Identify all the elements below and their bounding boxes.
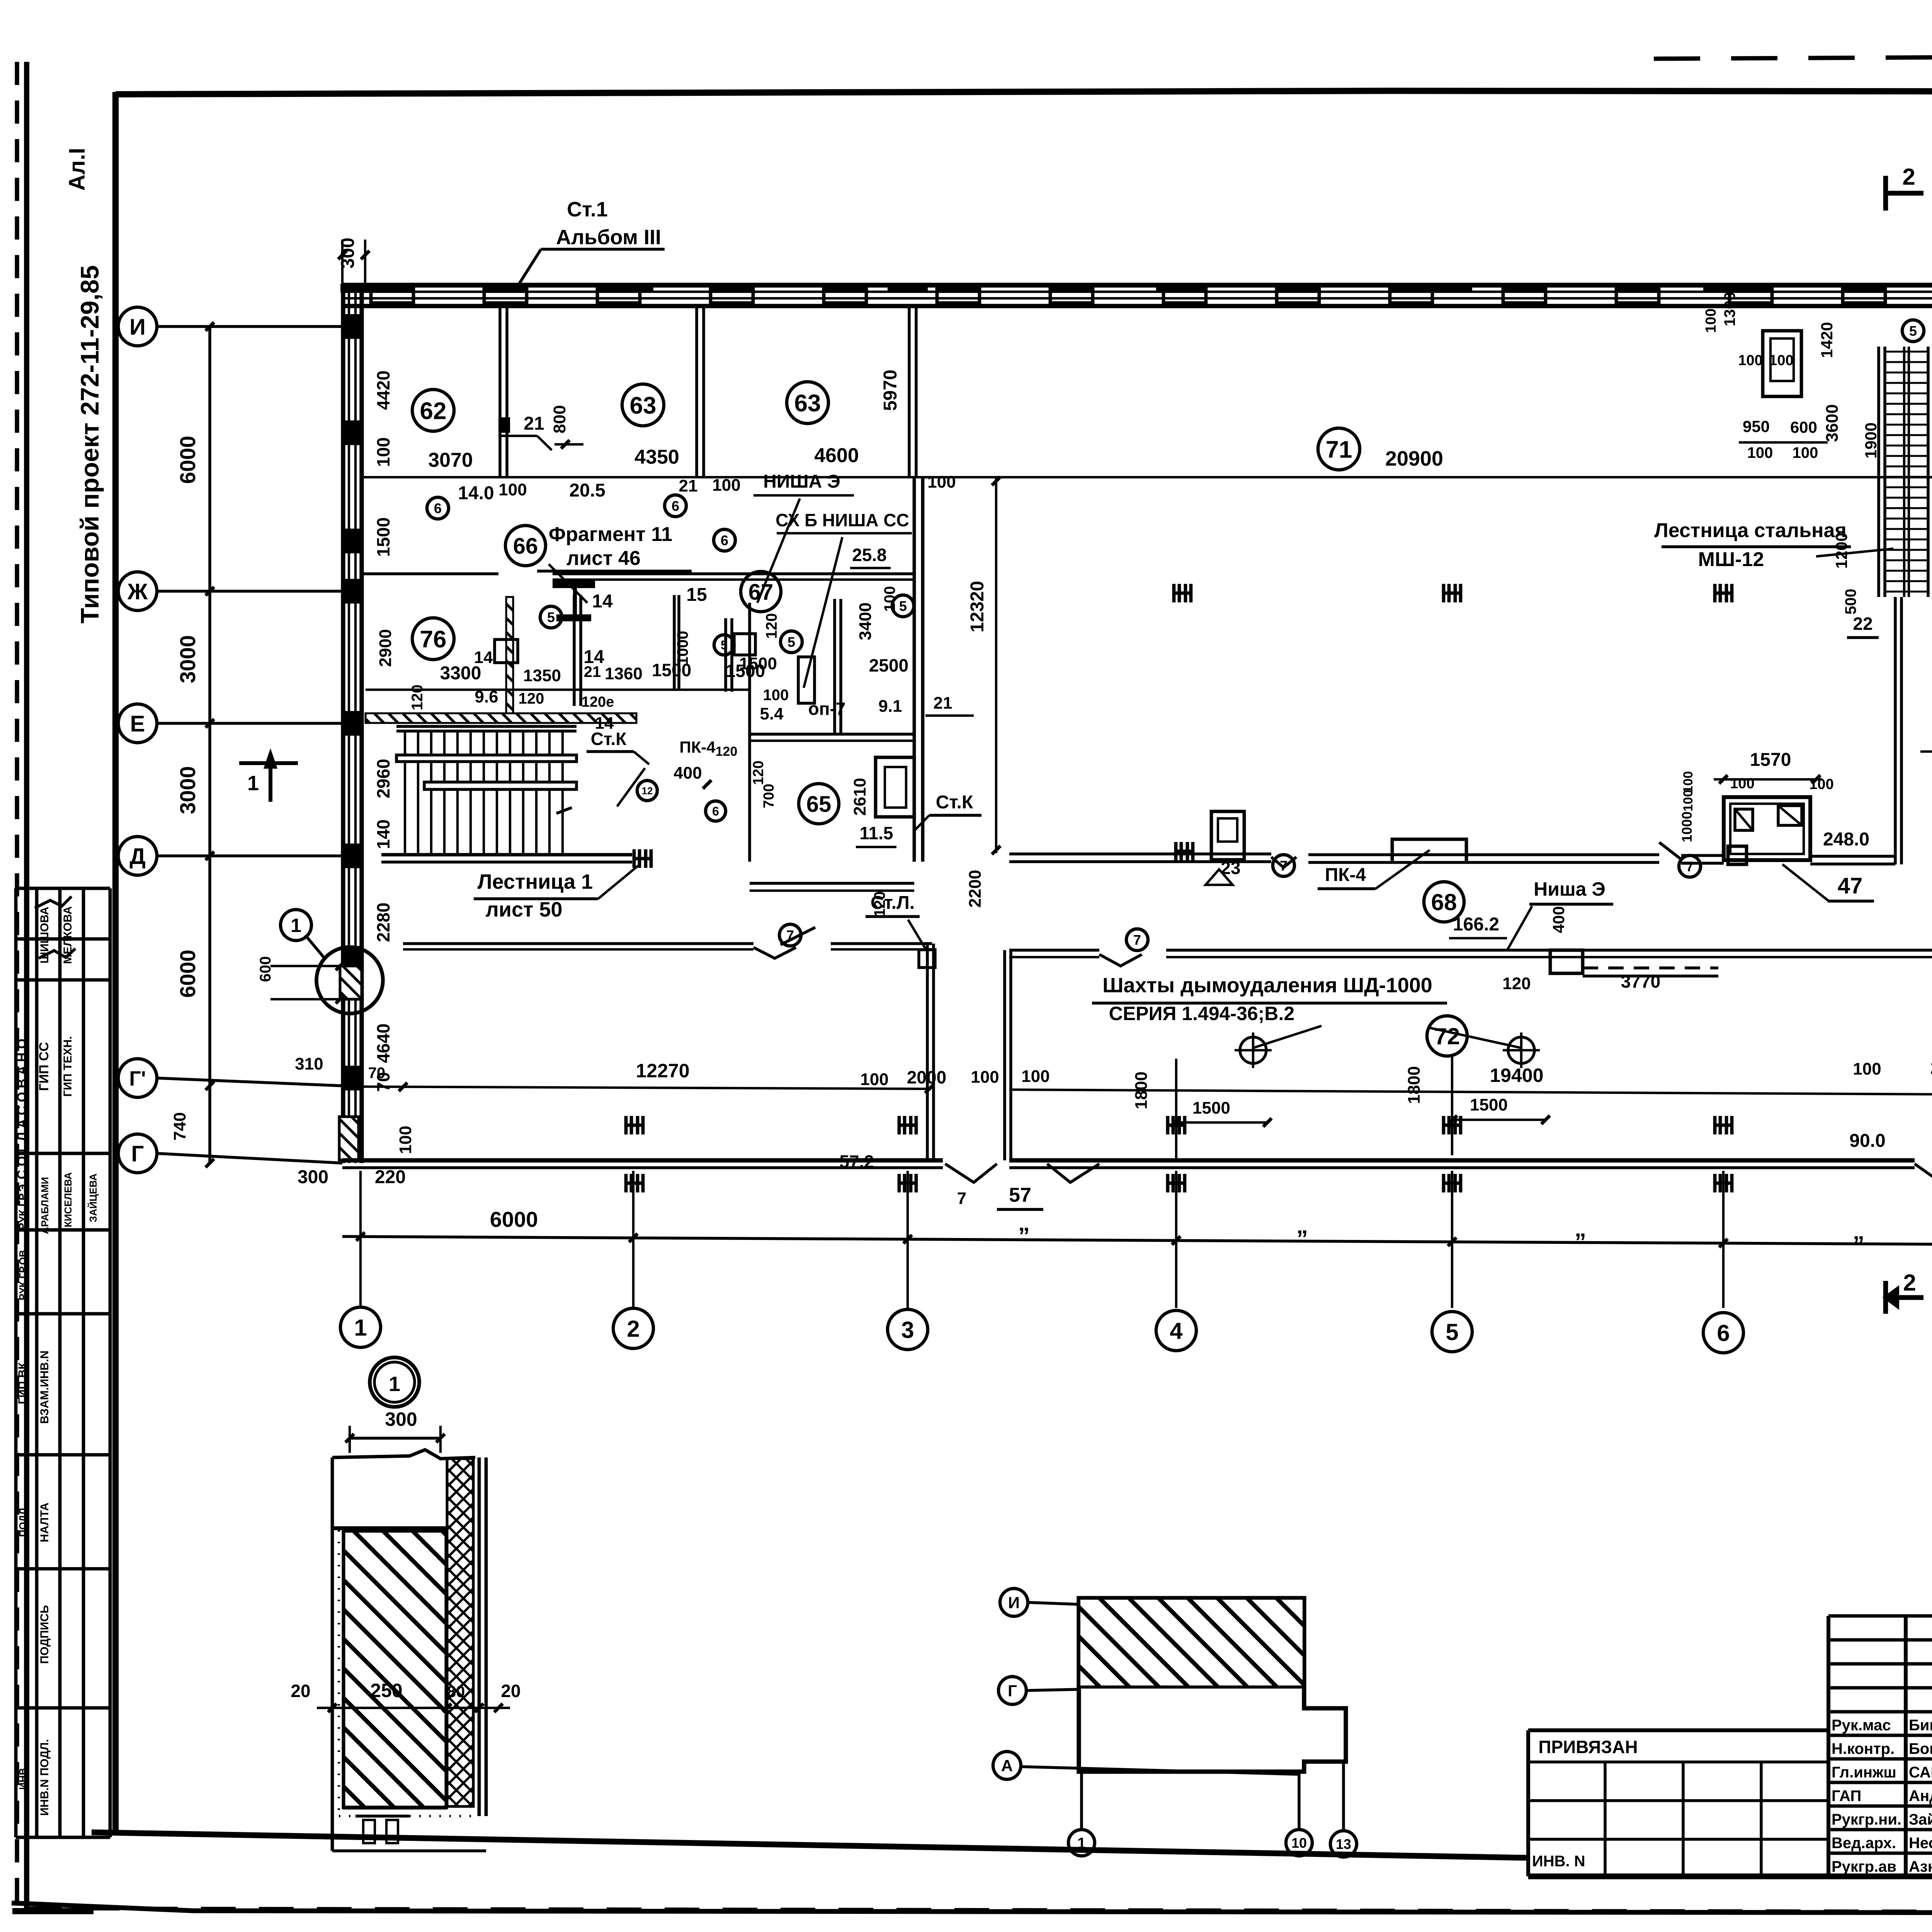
svg-text:6000: 6000 bbox=[175, 436, 200, 484]
key plan axis bubble И bbox=[1000, 1588, 1028, 1616]
wall right of second room 63 on axis 3 bbox=[908, 306, 911, 477]
svg-text:6: 6 bbox=[672, 498, 679, 514]
svg-text:57.2: 57.2 bbox=[839, 1151, 874, 1172]
svg-text:2200: 2200 bbox=[966, 870, 985, 908]
svg-text:А: А bbox=[1001, 1757, 1013, 1775]
svg-text:Г: Г bbox=[1008, 1682, 1017, 1700]
sheet inner frame top border bbox=[116, 91, 1932, 94]
left outer wall band with windows bbox=[341, 285, 345, 1163]
svg-text:68: 68 bbox=[1431, 889, 1457, 915]
svg-text:250: 250 bbox=[370, 1680, 402, 1701]
detail fragment double circle 1 bbox=[370, 1357, 419, 1407]
svg-text:120: 120 bbox=[409, 685, 426, 711]
svg-text:1500: 1500 bbox=[739, 654, 777, 673]
dim line G-prime across room 70 bbox=[344, 1087, 931, 1089]
svg-text:62: 62 bbox=[420, 398, 447, 424]
fragment partition wall middle bbox=[573, 595, 576, 706]
svg-text:14: 14 bbox=[592, 591, 613, 612]
svg-text:90.0: 90.0 bbox=[1849, 1131, 1885, 1151]
svg-text:5: 5 bbox=[899, 598, 907, 614]
svg-text:1500: 1500 bbox=[373, 517, 393, 557]
svg-text:5: 5 bbox=[547, 609, 555, 625]
top wall pier blocks at axes bbox=[340, 284, 381, 293]
svg-text:1360: 1360 bbox=[605, 664, 643, 683]
svg-text:4350: 4350 bbox=[634, 446, 679, 468]
svg-text:ИНВ.N ПОДЛ.: ИНВ.N ПОДЛ. bbox=[38, 1739, 51, 1816]
detail outer right lines bbox=[478, 1458, 481, 1816]
room bubble 71 bbox=[1318, 428, 1360, 470]
svg-text:100: 100 bbox=[1021, 1067, 1049, 1086]
svg-text:Богданова: Богданова bbox=[1909, 1740, 1932, 1757]
steel stair central divider bbox=[1903, 347, 1905, 597]
svg-text:лист 46: лист 46 bbox=[566, 547, 641, 570]
svg-text:4420: 4420 bbox=[373, 371, 393, 410]
fragment tee bar upper bbox=[553, 580, 595, 588]
bubble 5 at steel stair top bbox=[1902, 320, 1924, 342]
svg-text:ПРИВЯЗАН: ПРИВЯЗАН bbox=[1538, 1737, 1638, 1757]
svg-text:6: 6 bbox=[721, 532, 728, 548]
corridor wall Д main segment bbox=[1009, 852, 1271, 855]
svg-text:ИНВ.: ИНВ. bbox=[17, 1765, 29, 1789]
svg-text:1300: 1300 bbox=[1721, 292, 1738, 327]
svg-text:4640: 4640 bbox=[373, 1024, 393, 1063]
detail top of brick line bbox=[332, 1526, 447, 1530]
svg-text:4600: 4600 bbox=[814, 444, 859, 467]
bubble 7 door room 70 bbox=[779, 924, 801, 946]
svg-text:НИША Э: НИША Э bbox=[763, 471, 840, 492]
svg-text:ПК-4: ПК-4 bbox=[1325, 865, 1366, 885]
wall segment below 64 with niche bbox=[876, 757, 914, 817]
svg-text:7: 7 bbox=[1280, 858, 1287, 874]
left wall hatched pilaster at detail bbox=[340, 966, 362, 999]
corridor wall above stairs hatched bbox=[366, 713, 636, 723]
svg-text:100: 100 bbox=[927, 473, 956, 492]
svg-text:20.5: 20.5 bbox=[569, 480, 605, 501]
sheet outer edge left solid bbox=[24, 62, 29, 1912]
svg-text:120: 120 bbox=[763, 613, 780, 639]
svg-text:100: 100 bbox=[1747, 444, 1773, 461]
section mark 1 north arrow bbox=[269, 755, 272, 802]
svg-text:9.6: 9.6 bbox=[474, 687, 498, 706]
svg-text:С О Г Л А С О В А Н О: С О Г Л А С О В А Н О bbox=[15, 1039, 29, 1179]
niche and dashed duct wall right of room 68 bbox=[1550, 950, 1583, 973]
top dashed line right segment bbox=[1654, 54, 1932, 59]
corridor vertical wall right bbox=[1003, 950, 1006, 1160]
svg-text:И: И bbox=[1008, 1594, 1020, 1612]
svg-text:140: 140 bbox=[373, 820, 393, 849]
small radiator boxes room 64 bbox=[798, 657, 815, 703]
room 47 shaft box bbox=[1724, 797, 1810, 860]
detail top break line bbox=[332, 1450, 475, 1459]
svg-text:12: 12 bbox=[642, 785, 653, 796]
section mark 2 bottom bbox=[1883, 1281, 1888, 1314]
sheet outer torn edge left dashed bbox=[15, 62, 19, 1909]
svg-text:100: 100 bbox=[396, 1126, 415, 1154]
svg-text:5: 5 bbox=[1446, 1319, 1458, 1345]
svg-text:ГИП ВК: ГИП ВК bbox=[16, 1362, 29, 1404]
svg-text:100: 100 bbox=[881, 586, 898, 612]
svg-text:100: 100 bbox=[1738, 352, 1762, 369]
svg-text:3000: 3000 bbox=[175, 635, 200, 684]
svg-text:И: И bbox=[129, 315, 146, 340]
door opening symbol to room 68 left bbox=[781, 927, 815, 945]
svg-text:7: 7 bbox=[957, 1189, 966, 1208]
bubble 7 door room 72 left bbox=[1126, 929, 1148, 951]
svg-text:АРАБЛАМИ: АРАБЛАМИ bbox=[39, 1177, 51, 1234]
bottom dimension chain line bbox=[342, 1236, 1932, 1247]
svg-text:14: 14 bbox=[595, 714, 614, 733]
wall on axis Д at stair bottom bbox=[381, 853, 632, 857]
room 64 65 walls bbox=[833, 599, 836, 734]
svg-text:РУК.ГР.ОВ: РУК.ГР.ОВ bbox=[17, 1250, 29, 1301]
svg-text:1000: 1000 bbox=[674, 631, 691, 665]
wall below steel stair bbox=[1894, 597, 1897, 864]
svg-text:248.0: 248.0 bbox=[1823, 829, 1869, 850]
svg-text:300: 300 bbox=[385, 1408, 417, 1430]
svg-text:Азюбенко: Азюбенко bbox=[1909, 1858, 1932, 1875]
title block signature table grid bbox=[1827, 1616, 1830, 1876]
svg-text:100: 100 bbox=[373, 437, 393, 467]
door break corridor 1 bbox=[1271, 857, 1296, 867]
svg-text:100: 100 bbox=[1730, 776, 1754, 792]
svg-text:ГИП СС: ГИП СС bbox=[37, 1042, 51, 1091]
fragment bubble 66 and label bbox=[505, 526, 546, 566]
svg-text:1570: 1570 bbox=[1750, 750, 1791, 770]
svg-text:МШ-12: МШ-12 bbox=[1698, 548, 1764, 571]
svg-text:РУК.ГР.Э.: РУК.ГР.Э. bbox=[17, 1181, 29, 1230]
sheet inner frame bottom border bbox=[92, 1832, 1528, 1858]
svg-text:Типовой проект 272-11-29,85: Типовой проект 272-11-29,85 bbox=[75, 265, 104, 623]
svg-text:Лестница стальная: Лестница стальная bbox=[1654, 519, 1846, 542]
svg-text:КИСЕЛЕВА: КИСЕЛЕВА bbox=[62, 1172, 74, 1228]
rotated dim 12320 with line bbox=[995, 477, 997, 853]
room bubble 76 bbox=[412, 618, 454, 660]
leader from seriya to right shaft bbox=[1430, 1028, 1521, 1048]
title block bottom dashed line bbox=[27, 1908, 1932, 1913]
svg-text:Д: Д bbox=[129, 844, 145, 869]
svg-text:Ст.1: Ст.1 bbox=[567, 198, 608, 221]
wall between rooms 62 and 63 bbox=[498, 306, 502, 477]
svg-text:100: 100 bbox=[712, 476, 740, 495]
svg-text:11.5: 11.5 bbox=[860, 823, 893, 843]
svg-text:Ж: Ж bbox=[127, 579, 148, 604]
svg-text:6: 6 bbox=[434, 500, 442, 516]
svg-text:лист 50: лист 50 bbox=[485, 898, 562, 921]
svg-text:10: 10 bbox=[1291, 1835, 1307, 1851]
room 66 67 partition hatched wall bbox=[506, 597, 513, 713]
svg-text:9.1: 9.1 bbox=[878, 697, 902, 716]
columns at bottom wall pairs bbox=[624, 1116, 628, 1134]
svg-text:3400: 3400 bbox=[856, 602, 875, 640]
axis Г' bubble bbox=[118, 1059, 157, 1097]
svg-text:1: 1 bbox=[389, 1372, 400, 1396]
interior dimension line across plan bbox=[363, 476, 1932, 478]
axis И bubble bbox=[118, 307, 157, 346]
hall 71 columns on axis Ж bbox=[1172, 584, 1176, 602]
key plan axis line 13 bbox=[1342, 1762, 1345, 1830]
wall below rooms 62 63 63 bbox=[361, 572, 498, 575]
svg-text:СХ Б НИША СС: СХ Б НИША СС bbox=[776, 510, 909, 530]
fragment bubble 1 left wall bbox=[281, 910, 311, 940]
svg-text:3000: 3000 bbox=[175, 766, 200, 815]
svg-text:100: 100 bbox=[860, 1070, 888, 1089]
svg-text:Рукгр.ав: Рукгр.ав bbox=[1832, 1858, 1896, 1875]
room bubble 65 bbox=[799, 784, 839, 824]
niche PK-4 box on corridor wall bbox=[1392, 839, 1466, 861]
section mark 2 top bbox=[1883, 176, 1888, 211]
axis Г bubble bbox=[118, 1134, 157, 1173]
hall 71 left wall on axis 3 lower part bbox=[913, 477, 916, 862]
detail reference circle around pilaster bbox=[316, 947, 383, 1014]
detail bottom structure bbox=[344, 1806, 446, 1810]
svg-text:20900: 20900 bbox=[1385, 447, 1443, 470]
svg-text:47: 47 bbox=[1838, 873, 1863, 898]
key plan axis bubble Г bbox=[998, 1677, 1026, 1704]
fragment wall stub right of tee bbox=[724, 618, 727, 692]
svg-text:5: 5 bbox=[1909, 323, 1917, 339]
svg-text:15: 15 bbox=[686, 585, 707, 605]
door break room 72 left bbox=[1099, 954, 1142, 966]
room bubble 68 bbox=[1424, 882, 1464, 922]
svg-text:166.2: 166.2 bbox=[1453, 914, 1499, 935]
svg-text:1800: 1800 bbox=[1405, 1066, 1423, 1104]
key plan axis line 1 bbox=[1080, 1772, 1083, 1829]
svg-text:120: 120 bbox=[1502, 974, 1531, 993]
wall between rooms 63 and 63 bbox=[695, 306, 698, 477]
svg-text:2: 2 bbox=[1902, 164, 1915, 190]
svg-text:1900: 1900 bbox=[1862, 422, 1880, 458]
svg-text:ИНВ. N: ИНВ. N bbox=[1532, 1853, 1585, 1870]
svg-text:800: 800 bbox=[550, 405, 569, 433]
small bubbles 5 6 around left block bbox=[427, 497, 449, 519]
svg-text:5: 5 bbox=[787, 634, 795, 650]
steel stair MSh-12 rails bbox=[1877, 347, 1880, 597]
room bubble 72 left bbox=[1427, 1016, 1467, 1056]
left wall pier blocks bbox=[342, 314, 363, 339]
column on corridor wall axis 4 bbox=[1174, 842, 1178, 861]
room 70 top wall bbox=[403, 942, 753, 945]
svg-text:САМОВЕР: САМОВЕР bbox=[1909, 1764, 1932, 1781]
svg-text:Н.контр.: Н.контр. bbox=[1832, 1740, 1895, 1757]
svg-text:ГАП: ГАП bbox=[1832, 1787, 1861, 1804]
svg-text:100: 100 bbox=[1681, 790, 1696, 812]
svg-text:63: 63 bbox=[794, 390, 821, 417]
svg-text:„: „ bbox=[1575, 1216, 1586, 1242]
svg-text:72: 72 bbox=[1434, 1024, 1460, 1049]
svg-text:ВЗАМ.ИНВ.N: ВЗАМ.ИНВ.N bbox=[38, 1350, 51, 1424]
left table signature squiggles bbox=[35, 896, 71, 908]
svg-text:Гл.инжш: Гл.инжш bbox=[1832, 1764, 1896, 1781]
svg-text:Е: Е bbox=[130, 711, 145, 736]
svg-text:Ст.К: Ст.К bbox=[936, 792, 973, 813]
room bubble 63 second bbox=[787, 382, 828, 423]
stair 1 top edge double line bbox=[396, 725, 577, 728]
svg-text:5.4: 5.4 bbox=[760, 704, 784, 723]
sheet bottom outer edge line bbox=[12, 1903, 1932, 1913]
svg-text:Г': Г' bbox=[129, 1067, 146, 1090]
svg-text:„: „ bbox=[1018, 1210, 1030, 1236]
svg-text:ПК-4: ПК-4 bbox=[679, 738, 716, 756]
svg-text:100: 100 bbox=[1793, 444, 1818, 461]
door 57 right leaves bbox=[1915, 1164, 1932, 1182]
svg-text:300: 300 bbox=[338, 238, 358, 269]
svg-text:1: 1 bbox=[1077, 1835, 1086, 1852]
svg-text:3600: 3600 bbox=[1823, 404, 1842, 442]
svg-text:ЗАЙЦЕВА: ЗАЙЦЕВА bbox=[87, 1173, 99, 1223]
svg-text:ПОДЛ: ПОДЛ bbox=[17, 1508, 29, 1537]
svg-text:1800: 1800 bbox=[1132, 1071, 1151, 1109]
svg-text:120: 120 bbox=[716, 744, 738, 759]
svg-text:14: 14 bbox=[474, 648, 493, 667]
small radiator box room 76 fragment bbox=[495, 639, 518, 663]
svg-text:СЕРИЯ 1.494-36;В.2: СЕРИЯ 1.494-36;В.2 bbox=[1109, 1003, 1294, 1024]
svg-text:66: 66 bbox=[513, 534, 538, 559]
svg-text:Лестница 1: Лестница 1 bbox=[478, 870, 593, 893]
fragment tee bar lower bbox=[556, 614, 591, 621]
svg-text:НАЛТА: НАЛТА bbox=[38, 1503, 51, 1543]
fragment partition wall right bbox=[673, 595, 676, 690]
svg-text:Рук.мас: Рук.мас bbox=[1832, 1717, 1891, 1734]
corridor vertical wall left of room 72 bbox=[926, 944, 929, 1160]
svg-text:6000: 6000 bbox=[490, 1207, 538, 1231]
room bubble 62 bbox=[412, 389, 454, 431]
leader line nisha E bbox=[757, 498, 800, 603]
svg-text:740: 740 bbox=[170, 1112, 189, 1140]
interior dim line room 72 bbox=[1012, 1090, 1932, 1097]
svg-text:Вед.арх.: Вед.арх. bbox=[1832, 1835, 1896, 1852]
svg-text:1: 1 bbox=[354, 1315, 367, 1341]
svg-text:14.0: 14.0 bbox=[458, 483, 494, 503]
svg-text:100: 100 bbox=[1703, 308, 1719, 333]
room 76 dim line bbox=[366, 689, 750, 691]
svg-text:20: 20 bbox=[291, 1681, 310, 1701]
svg-text:Г: Г bbox=[131, 1141, 144, 1167]
svg-text:600: 600 bbox=[1790, 418, 1817, 436]
sheet inner frame left border bbox=[112, 92, 119, 1833]
svg-text:Биксон: Биксон bbox=[1909, 1717, 1932, 1734]
steel stair treads bbox=[1885, 351, 1928, 353]
svg-text:22: 22 bbox=[1853, 614, 1872, 634]
top outer wall band with windows bbox=[342, 283, 1932, 288]
door 57 left leaves bbox=[945, 1164, 997, 1182]
bubble 12 and 6 right of stair bbox=[637, 781, 657, 801]
svg-text:Фрагмент 11: Фрагмент 11 bbox=[549, 523, 672, 546]
svg-text:Зайцева: Зайцева bbox=[1909, 1811, 1932, 1828]
svg-text:1000: 1000 bbox=[1679, 811, 1695, 842]
svg-text:1: 1 bbox=[291, 915, 301, 936]
vertical dim stubs at shafts bbox=[1175, 1059, 1177, 1159]
svg-text:21: 21 bbox=[584, 663, 601, 680]
key plan hatched upper band bbox=[1079, 1598, 1304, 1687]
stair 1 treads bbox=[404, 731, 406, 855]
svg-text:2960: 2960 bbox=[373, 759, 393, 798]
svg-text:120е: 120е bbox=[582, 694, 614, 710]
svg-text:70: 70 bbox=[368, 1065, 386, 1082]
svg-text:3770: 3770 bbox=[1621, 971, 1660, 992]
room bubble 63 first bbox=[622, 384, 664, 426]
svg-text:600: 600 bbox=[257, 956, 274, 982]
svg-text:76: 76 bbox=[420, 626, 447, 653]
svg-text:63: 63 bbox=[630, 392, 656, 419]
left margin upper table grid bbox=[14, 888, 18, 1230]
svg-text:100: 100 bbox=[971, 1068, 999, 1087]
svg-text:6: 6 bbox=[1717, 1320, 1730, 1346]
svg-text:20: 20 bbox=[501, 1681, 520, 1701]
svg-text:21: 21 bbox=[934, 694, 952, 713]
shaft symbols circles with cross bbox=[1240, 1037, 1266, 1063]
svg-text:80: 80 bbox=[447, 1682, 465, 1701]
detail insulation crosshatch strip bbox=[447, 1459, 473, 1806]
svg-text:220: 220 bbox=[375, 1167, 406, 1187]
svg-text:„: „ bbox=[1853, 1218, 1864, 1244]
svg-text:400: 400 bbox=[1549, 906, 1568, 933]
axis lines from plan to bottom bubbles bbox=[359, 1171, 362, 1308]
key plan building outline bbox=[1079, 1598, 1346, 1772]
axis Е bubble bbox=[118, 704, 157, 743]
stair 1 up arrow bbox=[556, 808, 572, 813]
svg-text:2: 2 bbox=[627, 1316, 639, 1342]
svg-text:Альбом III: Альбом III bbox=[556, 226, 661, 249]
dim line along rooms 75 77 69 bbox=[1920, 750, 1932, 753]
detail mid dim line 20 250 80 20 bbox=[317, 1707, 510, 1709]
door jamb black block room 62 bbox=[498, 417, 510, 433]
room 47 inner window squares bbox=[1735, 809, 1753, 830]
axis bubbles 1-10 bbox=[340, 1307, 381, 1347]
key plan axis bubble А bbox=[993, 1752, 1021, 1779]
door leaf corridor 2 bbox=[1659, 842, 1681, 859]
svg-text:7: 7 bbox=[1133, 932, 1141, 948]
door break room 70 bbox=[753, 947, 796, 958]
sheet bottom outer edge thick left segment bbox=[12, 1908, 94, 1914]
left margin lower table grid bbox=[14, 1230, 18, 1837]
svg-text:2: 2 bbox=[1903, 1270, 1916, 1296]
svg-text:57: 57 bbox=[1009, 1184, 1031, 1206]
svg-text:Шахты дымоудаления ШД-1000: Шахты дымоудаления ШД-1000 bbox=[1102, 974, 1432, 997]
privyazan box grid bbox=[1528, 1728, 1828, 1732]
svg-text:Ал.I: Ал.I bbox=[65, 148, 90, 191]
bottom outer wall room 70 and 72 bbox=[342, 1158, 943, 1162]
svg-text:700: 700 bbox=[761, 784, 777, 808]
svg-text:2610: 2610 bbox=[850, 778, 869, 816]
svg-text:100: 100 bbox=[1809, 776, 1833, 793]
svg-text:3070: 3070 bbox=[428, 449, 473, 471]
key plan axis line 10 bbox=[1298, 1772, 1301, 1829]
svg-text:12320: 12320 bbox=[967, 581, 988, 632]
svg-text:19400: 19400 bbox=[1490, 1065, 1543, 1086]
key plan axis bubble 10 bbox=[1286, 1830, 1312, 1856]
svg-text:1420: 1420 bbox=[1818, 322, 1836, 358]
svg-text:21: 21 bbox=[679, 476, 698, 495]
svg-text:100: 100 bbox=[1853, 1060, 1881, 1078]
svg-text:12270: 12270 bbox=[636, 1060, 689, 1082]
svg-text:Нестеренко: Нестеренко bbox=[1909, 1835, 1932, 1852]
svg-text:4: 4 bbox=[1170, 1318, 1183, 1344]
svg-text:ГИП ТЕХН.: ГИП ТЕХН. bbox=[61, 1036, 74, 1097]
svg-text:6: 6 bbox=[712, 804, 719, 818]
svg-text:5970: 5970 bbox=[880, 370, 901, 411]
window symbol left of steel stair bbox=[1763, 331, 1801, 396]
svg-text:Ст.Л.: Ст.Л. bbox=[871, 893, 915, 913]
svg-text:Рукгр.ни.: Рукгр.ни. bbox=[1832, 1811, 1901, 1828]
leader line from detail circle to fragment bubble 1 bbox=[305, 935, 325, 958]
svg-text:ПОДПИСЬ: ПОДПИСЬ bbox=[38, 1605, 51, 1664]
stair 1 landing rail lower bbox=[424, 782, 577, 789]
bubble 7 doors corridor bbox=[1273, 855, 1294, 876]
svg-text:21: 21 bbox=[524, 413, 544, 434]
column at end of stair wall bbox=[633, 849, 636, 868]
corridor wall Д center left segment bbox=[750, 882, 914, 885]
svg-text:300: 300 bbox=[298, 1167, 328, 1187]
